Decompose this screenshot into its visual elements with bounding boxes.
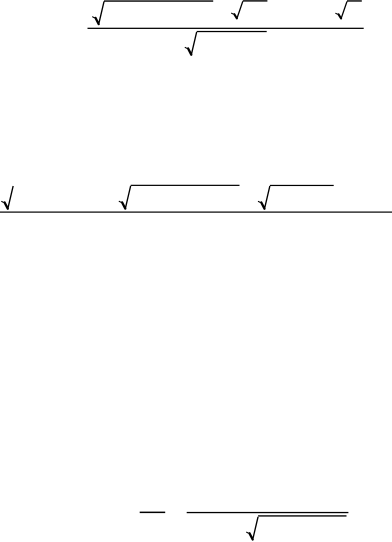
vinculum of radical 1 [104,0,213,1]
vinculum of radical 2 [243,0,268,1]
radical sign 2 (top numerator, medium) [232,1,243,18]
vinculum of radical 7 [270,185,334,186]
radical sign 1 (top numerator, large) [93,1,104,24]
fraction bar (top formula) [88,28,364,29]
vinculum of radical 8 [258,515,346,516]
radical sign 8 (bottom denominator, large) [247,517,258,540]
vinculum of radical 4 [197,31,267,32]
minus sign (bottom formula) [140,512,166,513]
radical sign 6 (middle row) [119,186,130,209]
radical sign 5 (middle row, far left, no vinculum) [2,186,13,209]
vinculum of radical 3 [347,0,362,1]
vinculum of radical 6 [131,185,240,186]
radical sign 7 (middle row) [258,186,269,209]
radical sign 4 (top denominator, large) [185,32,196,55]
radical sign 3 (top numerator, medium) [336,1,347,18]
long horizontal rule (middle) [0,212,392,213]
fraction bar (bottom formula) [187,512,349,513]
